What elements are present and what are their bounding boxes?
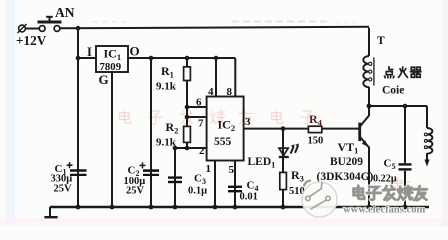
svg-text:Coie: Coie <box>382 85 404 97</box>
svg-text:+12V: +12V <box>16 33 47 48</box>
svg-text:9.1k: 9.1k <box>156 81 177 93</box>
svg-text:(3DK304G): (3DK304G) <box>317 171 374 183</box>
svg-text:I: I <box>87 45 92 59</box>
svg-text:7809: 7809 <box>100 61 122 73</box>
svg-text:0.01: 0.01 <box>240 192 258 203</box>
svg-text:1: 1 <box>206 163 212 175</box>
svg-text:www.elecfans.com: www.elecfans.com <box>343 205 426 216</box>
svg-text:25V: 25V <box>54 184 73 195</box>
svg-text:G: G <box>99 72 109 87</box>
svg-text:5: 5 <box>229 164 235 176</box>
svg-text:0.1μ: 0.1μ <box>188 186 207 197</box>
svg-text:0.22μ: 0.22μ <box>373 174 397 185</box>
svg-text:7: 7 <box>198 118 204 130</box>
svg-text:BU209: BU209 <box>330 156 363 168</box>
svg-text:AN: AN <box>55 5 75 20</box>
svg-text:2: 2 <box>199 145 205 157</box>
svg-text:O: O <box>130 44 140 59</box>
svg-text:25V: 25V <box>126 186 145 197</box>
svg-text:6: 6 <box>196 97 202 109</box>
svg-text:150: 150 <box>308 136 324 147</box>
svg-text:9.1k: 9.1k <box>156 137 177 149</box>
svg-text:3: 3 <box>245 116 251 128</box>
svg-text:8: 8 <box>227 86 233 98</box>
svg-text:555: 555 <box>214 136 232 148</box>
svg-text:T: T <box>377 35 385 47</box>
svg-text:4: 4 <box>208 86 214 98</box>
